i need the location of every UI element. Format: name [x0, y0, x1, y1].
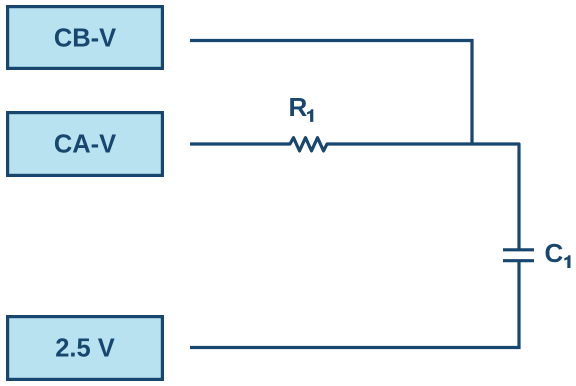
svg-text:CB-V: CB-V [54, 24, 116, 52]
svg-text:C: C [545, 238, 564, 268]
svg-text:2.5 V: 2.5 V [55, 334, 115, 362]
svg-text:CA-V: CA-V [54, 130, 116, 158]
svg-text:R: R [289, 92, 308, 122]
